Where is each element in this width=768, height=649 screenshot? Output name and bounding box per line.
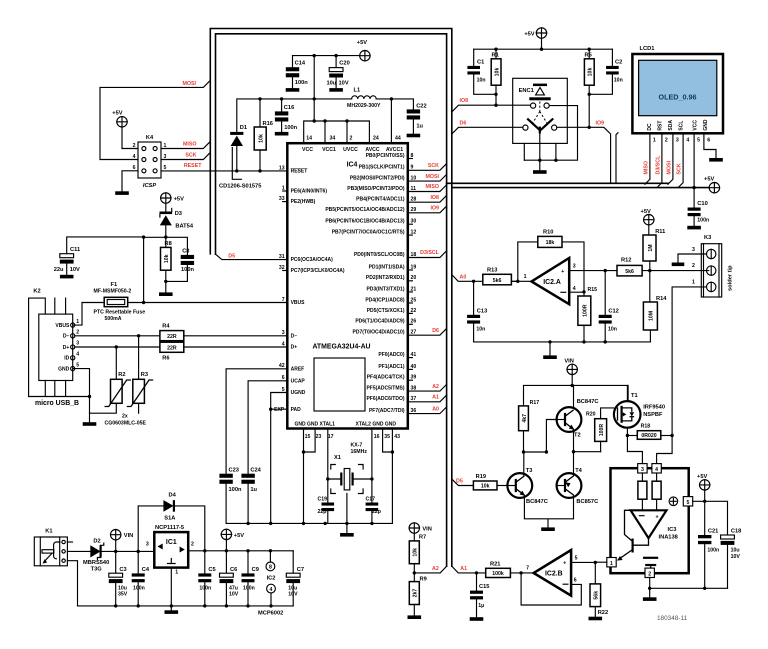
svg-text:PE6(AIN0/INT6): PE6(AIN0/INT6) [291, 189, 328, 195]
svg-text:R22: R22 [598, 610, 608, 616]
svg-text:C6: C6 [230, 567, 237, 573]
junction LCD VCC [692, 186, 695, 189]
wire T3 T4 to gnd rail [524, 495, 573, 527]
svg-text:1: 1 [175, 570, 178, 576]
svg-text:3: 3 [76, 341, 79, 347]
svg-text:IC2.B: IC2.B [545, 571, 563, 578]
wire tap MOSI pin 10 [408, 174, 447, 181]
resistor R22 56k [594, 562, 596, 584]
svg-text:UVCC: UVCC [343, 147, 358, 153]
op-amp IC2.B [534, 550, 572, 596]
svg-text:R14: R14 [656, 296, 667, 302]
ground encoder [533, 170, 547, 174]
wire crystal case to ground [346, 494, 348, 534]
svg-text:4: 4 [573, 286, 576, 292]
junction +5V [540, 48, 543, 51]
svg-text:IO8: IO8 [430, 195, 439, 201]
wire stub pin 33 [283, 201, 288, 203]
svg-text:CD1206-S01575: CD1206-S01575 [219, 184, 261, 190]
wire D3 node to R8 [165, 237, 167, 247]
svg-text:D–: D– [291, 333, 298, 339]
ic IC3 internal transistor [633, 538, 648, 545]
diode D1 CD1206-S01575 [230, 132, 243, 135]
ground K2 [83, 422, 97, 426]
transistor T1 IRF9540 NSPBF P-MOSFET [614, 401, 641, 428]
wire tap A0 pin 36 [408, 407, 447, 414]
svg-text:22p: 22p [318, 509, 327, 515]
crystal X1 KX-7 16MHz [344, 469, 350, 490]
svg-text:D2: D2 [93, 539, 100, 545]
wire stub [408, 323, 413, 325]
svg-text:R7: R7 [419, 535, 426, 541]
wire stub [408, 280, 413, 282]
wire AREF pin42 to C23 [226, 369, 287, 474]
capacitor C22 1u [407, 109, 420, 113]
ic IC3 internal resistor left [641, 473, 643, 481]
svg-text:SCK: SCK [185, 152, 196, 158]
svg-text:35: 35 [384, 434, 390, 440]
svg-text:+5V: +5V [697, 474, 707, 480]
svg-text:+5V: +5V [112, 111, 122, 117]
junction D4 C4 [137, 550, 140, 553]
junction C9 gnd [246, 604, 249, 607]
power VIN flag divider [409, 523, 419, 533]
wire stub [408, 368, 413, 370]
junction R22 [594, 561, 597, 564]
svg-text:PD1(INT1/SDA): PD1(INT1/SDA) [369, 264, 405, 270]
svg-text:PD2(INT2/RXD1): PD2(INT2/RXD1) [366, 275, 405, 281]
svg-text:35V: 35V [118, 592, 128, 598]
svg-text:34: 34 [330, 136, 336, 142]
svg-text:6: 6 [707, 137, 710, 143]
power +5V flag below gnd rail [221, 529, 231, 539]
capacitor C17 22p on XTAL2 [366, 503, 379, 506]
junction R5 [588, 48, 591, 51]
wire shunt sense to IC3 pin4 [657, 436, 673, 464]
svg-text:10V: 10V [229, 592, 239, 598]
svg-text:C24: C24 [250, 467, 261, 473]
svg-text:5: 5 [697, 137, 700, 143]
svg-text:10V: 10V [288, 592, 298, 598]
wire IC1 gnd [170, 568, 172, 606]
svg-text:C15: C15 [479, 584, 489, 590]
svg-text:1: 1 [524, 274, 527, 280]
ic IC3 pin box 5 [683, 497, 692, 506]
wire K2 shield [29, 298, 90, 396]
wire op-amp pin3 to K3 pin2 [569, 270, 709, 272]
wire VBUS node C11 to C8 [67, 237, 188, 303]
junction shield gnd [88, 395, 91, 398]
svg-text:C14: C14 [295, 60, 306, 66]
svg-text:10k: 10k [164, 254, 170, 263]
svg-text:BC847C: BC847C [577, 399, 599, 405]
svg-text:5: 5 [687, 500, 690, 506]
junction pins 15-23 [302, 450, 305, 453]
junction output [519, 571, 522, 574]
junction R15 gnd [582, 340, 585, 343]
svg-text:22R: 22R [167, 345, 177, 351]
junction feed [313, 54, 316, 57]
capacitor C12 10n [604, 271, 606, 315]
wire C17 bottom [371, 511, 373, 523]
diode D2 MBRS540 T3G [90, 545, 100, 557]
svg-text:R6: R6 [162, 355, 169, 361]
svg-text:100R: 100R [599, 424, 605, 437]
svg-text:ENC1: ENC1 [519, 88, 534, 94]
junction IC1 gnd [170, 604, 173, 607]
wire pin 44 AVCC1 [390, 99, 392, 143]
svg-text:8: 8 [269, 565, 272, 571]
svg-text:INA138: INA138 [659, 535, 678, 541]
svg-text:23: 23 [316, 434, 322, 440]
svg-text:2: 2 [648, 572, 651, 578]
transistor T2 BC847C [557, 407, 582, 432]
svg-text:+5V: +5V [357, 40, 367, 46]
svg-text:D1: D1 [240, 125, 247, 131]
wire stub [408, 312, 413, 314]
junction R11 R14 [648, 269, 651, 272]
svg-text:R10: R10 [543, 229, 553, 235]
svg-text:VIN: VIN [564, 358, 573, 364]
wire stub [408, 291, 413, 293]
ground R9 [408, 615, 422, 619]
svg-text:100n: 100n [133, 585, 145, 591]
svg-text:ATMEGA32U4-AU: ATMEGA32U4-AU [312, 344, 370, 351]
svg-text:4: 4 [133, 154, 136, 160]
junction C9 [246, 549, 249, 552]
wire GND pins 15 23 [304, 429, 316, 524]
svg-text:PF7(ADC7/TDI): PF7(ADC7/TDI) [369, 408, 405, 414]
wire T4 emitter [573, 452, 575, 476]
svg-text:1µ: 1µ [478, 603, 484, 609]
ic IC2 power pin 8 [269, 551, 271, 562]
junction R1 [494, 48, 497, 51]
svg-text:5: 5 [575, 556, 578, 562]
svg-text:R17: R17 [530, 400, 540, 406]
svg-text:L1: L1 [354, 87, 361, 93]
ic IC3 internal resistor right [656, 473, 658, 481]
svg-text:2: 2 [665, 137, 668, 143]
resistor R10 18k [538, 236, 562, 247]
svg-text:15: 15 [305, 434, 311, 440]
wire op-amp pin4 [569, 291, 584, 293]
capacitor C14 100n [292, 56, 294, 68]
svg-text:5: 5 [164, 165, 167, 171]
svg-text:C2: C2 [615, 60, 622, 66]
capacitor C21 100n [704, 501, 706, 535]
svg-text:A1: A1 [460, 566, 467, 572]
wire VCC pin comb [304, 121, 370, 143]
varistor R2 [111, 379, 123, 403]
svg-text:R2: R2 [118, 372, 125, 378]
junction IO9 [588, 126, 591, 129]
wire VCC rail [237, 99, 414, 132]
svg-text:UGND: UGND [291, 390, 306, 396]
wire D+ from K2 pin3 to R6 [75, 346, 160, 348]
svg-text:NCP1117-5: NCP1117-5 [155, 525, 184, 531]
svg-text:2x: 2x [122, 413, 128, 419]
wire R20 top to T1 gate [601, 408, 614, 419]
transistor T3 BC847C [507, 473, 532, 498]
wire encoder RC rail [474, 48, 613, 50]
svg-text:10k: 10k [413, 548, 419, 557]
svg-text:MISO: MISO [183, 141, 197, 147]
svg-text:ID: ID [64, 356, 69, 362]
svg-text:PD3(INT3/TXD1): PD3(INT3/TXD1) [366, 286, 404, 292]
ic IC3 supply marker [669, 497, 678, 506]
junction C16 [280, 97, 283, 100]
capacitor C15 1u [476, 573, 478, 591]
svg-text:2: 2 [133, 143, 136, 149]
svg-text:IC2.A: IC2.A [543, 279, 561, 286]
wire LCD pin4 SCK to bus [678, 133, 683, 187]
svg-text:IC3: IC3 [668, 527, 677, 533]
svg-text:+5V: +5V [234, 533, 244, 539]
wire IO9 from encoder to bus lines [557, 127, 611, 183]
svg-text:3: 3 [164, 154, 167, 160]
svg-text:IC1: IC1 [166, 539, 177, 546]
svg-text:44: 44 [395, 136, 401, 142]
wire +5V line to LCD [452, 187, 710, 189]
junction gnd stub [548, 340, 551, 343]
svg-text:6: 6 [574, 578, 577, 584]
svg-text:1: 1 [76, 319, 79, 325]
svg-text:+5V: +5V [704, 177, 714, 183]
wire tap D3/SCL pin 18 [408, 251, 447, 258]
wire stub [408, 234, 413, 236]
wire R18 right to K3 pin1 node [661, 435, 672, 437]
junction VBUS line [142, 301, 145, 304]
resistor R5 10k [588, 49, 590, 59]
junction C12 gnd [604, 340, 607, 343]
svg-text:R21: R21 [490, 561, 500, 567]
wire D5 from bus to R19 [452, 479, 474, 485]
svg-text:D3/SCL: D3/SCL [420, 250, 440, 256]
svg-text:C23: C23 [229, 467, 239, 473]
ground C20 [329, 88, 343, 92]
svg-text:47u: 47u [229, 585, 238, 591]
svg-text:3: 3 [573, 263, 576, 269]
capacitor C1 10n [473, 49, 475, 66]
svg-text:ICSP: ICSP [143, 183, 156, 189]
capacitor C6 47u electrolytic [225, 551, 227, 573]
wire A2 flare to R7 R9 divider [414, 566, 446, 573]
svg-text:4: 4 [76, 352, 79, 358]
svg-text:MOSI: MOSI [182, 81, 196, 87]
svg-text:K1: K1 [45, 528, 52, 534]
svg-text:C13: C13 [477, 308, 487, 314]
junction C4 gnd [137, 604, 140, 607]
wire LCD pin3 MOSI to bus [668, 133, 673, 184]
svg-text:MOSI: MOSI [667, 160, 673, 174]
wire T2 emitter to node [574, 429, 601, 451]
resistor R17 4k7 [519, 406, 529, 431]
ic IC4 exposed pad [314, 358, 365, 411]
junction C3 [114, 550, 117, 553]
capacitor C15x 22p on XTAL1 [322, 503, 335, 506]
svg-text:R16: R16 [263, 121, 273, 127]
svg-text:BC857C: BC857C [576, 499, 598, 505]
wire VIN rail [524, 375, 629, 406]
resistor R14 10M [649, 271, 651, 302]
svg-text:OLED_0.96: OLED_0.96 [659, 93, 697, 102]
svg-text:SCL: SCL [679, 121, 685, 131]
svg-text:4: 4 [655, 467, 658, 473]
junction IC2 pwr [269, 549, 272, 552]
ground R22 [589, 617, 603, 621]
svg-text:2: 2 [692, 263, 695, 269]
encoder dashed actuator link [532, 102, 547, 124]
encoder rotary contacts [523, 125, 528, 130]
svg-text:T3: T3 [526, 468, 533, 474]
svg-text:R4: R4 [162, 323, 170, 329]
wire ground rail under MCU [226, 522, 392, 524]
capacitor C4 100n [137, 551, 139, 573]
wire LCD signal bus line [447, 182, 668, 184]
svg-text:EXP: EXP [274, 407, 285, 413]
capacitor C11 22u electrolytic [60, 254, 74, 258]
svg-text:R18: R18 [641, 424, 651, 430]
junction C5 gnd [203, 604, 206, 607]
resistor R19 10k [473, 481, 497, 490]
resistor R15 100R [583, 292, 585, 296]
svg-text:PB3(MISO/PCINT3/PDO): PB3(MISO/PCINT3/PDO) [347, 186, 405, 192]
svg-text:R5: R5 [585, 52, 592, 58]
svg-text:DC: DC [647, 123, 653, 131]
svg-text:C8: C8 [182, 249, 189, 255]
svg-text:R13: R13 [487, 267, 497, 273]
svg-text:10n: 10n [614, 78, 623, 84]
svg-text:C21: C21 [708, 528, 718, 534]
ic IC3 internal cap [643, 557, 658, 559]
svg-text:D5: D5 [228, 253, 235, 259]
svg-text:IO9: IO9 [430, 206, 439, 212]
ground K4 [115, 191, 129, 195]
power +5V LCD [709, 183, 719, 193]
capacitor C18 10u electrolytic [721, 535, 735, 539]
svg-text:10k: 10k [481, 484, 490, 490]
svg-text:VCC: VCC [302, 147, 313, 153]
resistor R1 10k [495, 49, 497, 59]
junction emitter node [572, 450, 575, 453]
svg-text:MCP6002: MCP6002 [258, 610, 283, 616]
svg-text:PD7(T0/OC4D/ADC10): PD7(T0/OC4D/ADC10) [353, 330, 405, 336]
svg-text:D6: D6 [432, 328, 439, 334]
connector K2 micro USB_B [39, 314, 73, 380]
junction divider [413, 571, 416, 574]
capacitor C23 100n [219, 474, 232, 478]
svg-text:micro USB_B: micro USB_B [35, 400, 79, 407]
capacitor C16 100n [281, 99, 283, 112]
ic IC3 pin box 4 [652, 464, 661, 473]
svg-text:VCC: VCC [693, 120, 699, 131]
svg-text:C9: C9 [252, 567, 259, 573]
svg-text:D6: D6 [460, 120, 467, 126]
display LCD1 OLED [632, 54, 723, 133]
junction C12 [604, 269, 607, 272]
svg-text:D3: D3 [175, 211, 182, 217]
wire VBUS from K2 pin1 through F1 to IC4 pin 7 [73, 303, 288, 326]
wire UGND pin5 down [271, 393, 288, 524]
wire K4 pin3 SCK [161, 153, 210, 160]
svg-text:1u: 1u [416, 123, 423, 129]
svg-text:R11: R11 [655, 229, 665, 235]
svg-text:T1: T1 [631, 393, 638, 399]
svg-text:100k: 100k [492, 571, 504, 577]
ground C15 [470, 617, 484, 621]
ground C10 [687, 226, 701, 230]
svg-text:C3: C3 [119, 567, 126, 573]
resistor R7 10k [413, 533, 415, 541]
svg-text:A2: A2 [432, 566, 439, 572]
svg-text:PD5(CTS/XCK1): PD5(CTS/XCK1) [367, 308, 405, 314]
svg-text:C18: C18 [731, 528, 741, 534]
svg-text:17: 17 [328, 434, 334, 440]
wire stub pin 1 [283, 190, 288, 192]
svg-text:PF0(ADC0): PF0(ADC0) [378, 352, 404, 358]
wire K1 pin1 stub [67, 541, 72, 543]
svg-text:PD4(ICP1/ADC8): PD4(ICP1/ADC8) [365, 297, 405, 303]
svg-text:LCD1: LCD1 [640, 46, 655, 52]
junction VIN [571, 384, 574, 387]
svg-text:100n: 100n [284, 125, 297, 131]
wire R8/C8 to ground [166, 264, 188, 292]
svg-text:10k: 10k [494, 68, 500, 77]
svg-text:PB5(PCINT5/OC1A/OC4B/ADC12): PB5(PCINT5/OC1A/OC4B/ADC12) [325, 207, 405, 213]
junction C15 [475, 571, 478, 574]
wire LCD pin6 GND [704, 133, 716, 158]
svg-text:PB0(PCINT0/SS): PB0(PCINT0/SS) [366, 153, 405, 159]
svg-text:14: 14 [306, 136, 312, 142]
wire R3 top to D- [138, 336, 140, 380]
svg-text:GND: GND [703, 119, 709, 131]
wire UCAP pin6 to C24 [248, 381, 287, 474]
junction R5 C2 [588, 93, 591, 96]
ic IC3 pin box 3 [638, 464, 647, 473]
svg-text:C17: C17 [366, 496, 376, 502]
svg-text:+5V: +5V [174, 196, 184, 202]
svg-text:2: 2 [350, 136, 353, 142]
svg-text:PF1(ADC1): PF1(ADC1) [378, 364, 404, 370]
svg-text:13: 13 [279, 165, 285, 171]
wire tap SCK pin 9 [408, 164, 447, 171]
wire R13 to op-amp [511, 280, 531, 282]
svg-text:4: 4 [686, 137, 689, 143]
resistor R21 100k [486, 568, 511, 577]
svg-text:RESET: RESET [291, 169, 308, 175]
svg-text:PB4(PCINT4/ADC11): PB4(PCINT4/ADC11) [356, 197, 405, 203]
svg-text:SCK: SCK [677, 163, 683, 174]
svg-text:C11: C11 [70, 247, 80, 253]
svg-text:D+: D+ [63, 345, 70, 351]
wire R6 to IC4 pin 4 [184, 346, 287, 348]
svg-text:C5: C5 [208, 567, 215, 573]
resistor R16 10k [259, 99, 261, 127]
svg-text:NSPBF: NSPBF [643, 412, 663, 418]
ic IC3 pin box 1 [607, 558, 616, 567]
ground K3 pin3 [672, 263, 685, 267]
svg-text:VCC1: VCC1 [322, 147, 336, 153]
wire stub pin 32 [283, 270, 288, 272]
svg-text:100n: 100n [243, 585, 255, 591]
wire VIN node [101, 540, 155, 552]
svg-text:MOSI: MOSI [425, 174, 439, 180]
junction C1 R1 [494, 93, 497, 96]
power +5V encoder [536, 28, 546, 38]
svg-text:10u: 10u [731, 548, 740, 554]
power +5V IC3 [700, 480, 710, 490]
ground rail PSU [78, 605, 294, 607]
